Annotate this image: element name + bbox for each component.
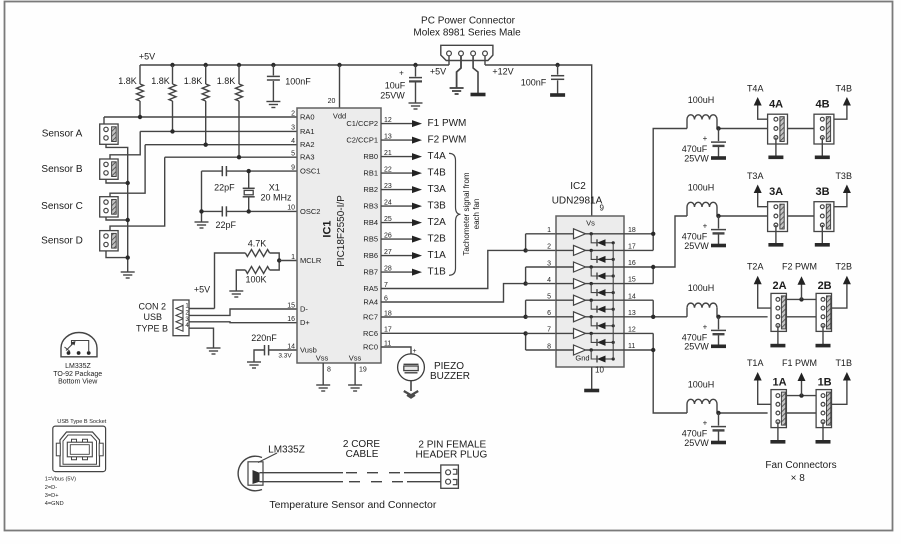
label 2B	[818, 280, 832, 292]
connector 4A fan header	[768, 114, 788, 144]
svg-text:2=D-: 2=D-	[45, 485, 57, 491]
svg-text:Temperature Sensor and Connect: Temperature Sensor and Connector	[269, 499, 436, 511]
ground sensors	[121, 272, 135, 278]
resistor R2 1.8K	[169, 65, 176, 131]
connector 2-pin female header plug	[441, 465, 459, 488]
svg-text:LM335Z: LM335Z	[268, 445, 305, 456]
wire 4B ground leg	[821, 138, 823, 157]
svg-text:9: 9	[600, 204, 605, 213]
label +5V rail	[139, 51, 155, 61]
wire R5 to USB +5V	[215, 253, 246, 309]
driver channel 7 with diode	[556, 328, 624, 346]
svg-text:RC6: RC6	[363, 329, 378, 338]
junctions sensor returns	[126, 181, 130, 260]
resistor R1 1.8K	[137, 65, 144, 117]
ground C6	[247, 362, 261, 368]
svg-text:16: 16	[287, 316, 295, 323]
wire/arrow output F2 PWM	[381, 137, 422, 144]
wire/arrow T1B tach	[832, 372, 851, 404]
svg-text:18: 18	[384, 310, 392, 317]
label R3 value 1.8K	[184, 76, 203, 86]
svg-text:RB0: RB0	[363, 152, 378, 161]
svg-text:27: 27	[384, 249, 392, 256]
label C2f value	[682, 332, 710, 351]
IC1 left pin labels	[287, 110, 322, 354]
svg-text:6: 6	[547, 310, 551, 317]
svg-text:Bottom View: Bottom View	[58, 379, 98, 386]
svg-text:+5V: +5V	[139, 51, 155, 61]
wire/arrow T3B tach	[834, 185, 851, 207]
wire 2A to 2B supply	[786, 316, 816, 318]
wire Vss pin 8	[323, 363, 331, 385]
svg-text:LM335Z: LM335Z	[65, 363, 91, 370]
svg-text:3A: 3A	[769, 186, 783, 198]
svg-text:28: 28	[384, 265, 392, 272]
wire Vss pin 19	[355, 363, 367, 385]
svg-text:USB Type B Socket: USB Type B Socket	[57, 419, 106, 425]
svg-text:MCLR: MCLR	[300, 256, 322, 265]
op-amp U1 microcontroller IC1 PIC18F2550-I/P body	[297, 108, 381, 363]
label Fan Connectors x8	[765, 460, 836, 484]
label L4 100uH	[688, 95, 715, 105]
junctions pullups to RA rows	[138, 115, 241, 160]
wire OSC1 row	[226, 170, 297, 172]
wire J1 pin1 to +5V rail	[448, 56, 450, 65]
svg-text:15: 15	[628, 277, 636, 284]
wire RC6 to IC2 in7/8	[381, 332, 526, 334]
IC1 right pin labels	[346, 117, 392, 352]
label 3A	[769, 186, 783, 198]
wire/arrow F2 PWM	[786, 276, 816, 301]
junctions on +5V rail	[170, 63, 417, 67]
connector Sensor C 2-pin	[100, 197, 118, 217]
wire J1 pin2 to ground	[457, 56, 461, 88]
label F1 PWM	[782, 358, 817, 368]
svg-text:24: 24	[384, 199, 392, 206]
svg-text:RA0: RA0	[300, 112, 315, 121]
svg-text:RB6: RB6	[363, 251, 378, 260]
svg-text:2B: 2B	[818, 280, 832, 292]
svg-text:17: 17	[628, 244, 636, 251]
svg-text:25VW: 25VW	[684, 153, 709, 163]
ground IC2	[584, 389, 599, 393]
svg-text:D-: D-	[300, 304, 308, 313]
svg-text:T1B: T1B	[428, 267, 447, 278]
IC2 input pin stubs	[526, 227, 556, 350]
svg-text:22: 22	[384, 166, 392, 173]
connector CON2 USB Type B 4-pin	[173, 300, 189, 336]
wire sensor A return chain	[106, 144, 128, 272]
svg-text:T3B: T3B	[835, 171, 852, 181]
inductor L1 100uH	[687, 399, 717, 413]
svg-text:RB5: RB5	[363, 235, 378, 244]
svg-text:PIC18F2550-I/P: PIC18F2550-I/P	[336, 195, 347, 267]
connector Sensor A 2-pin	[100, 124, 118, 144]
op-amp U2 driver IC2 UDN2981A body	[556, 216, 624, 367]
svg-text:10: 10	[287, 205, 295, 212]
inductor L3 100uH	[687, 202, 717, 216]
label C1f value	[682, 429, 710, 448]
connector J1 Molex 8981 4-pin	[441, 45, 493, 60]
svg-text:18: 18	[628, 227, 636, 234]
connector 2A fan header	[771, 293, 786, 331]
svg-text:4: 4	[291, 138, 295, 145]
svg-text:10uF: 10uF	[385, 80, 406, 90]
IC2 output pin stubs	[624, 227, 653, 350]
ground CON2	[207, 348, 221, 354]
label T4A	[747, 83, 764, 93]
ground C1	[266, 102, 280, 108]
wire outputs 18+17 to T4 filter	[651, 129, 687, 251]
connector Sensor B 2-pin	[100, 159, 118, 179]
capacitor C4f 470uF	[703, 129, 726, 158]
wire J1 pin4 to +12V rail	[484, 56, 486, 65]
svg-text:20: 20	[328, 98, 336, 105]
label T1B	[428, 267, 447, 278]
wire outputs 14+13 to T2 filter	[651, 300, 687, 319]
label USB pinout list	[45, 476, 76, 507]
svg-text:3: 3	[547, 260, 551, 267]
svg-text:RA2: RA2	[300, 140, 315, 149]
wire 1A ground leg	[777, 422, 779, 441]
svg-text:T4B: T4B	[835, 83, 852, 93]
svg-text:13: 13	[384, 133, 392, 140]
svg-text:IC2: IC2	[570, 181, 586, 192]
wire Vdd pin 20	[339, 65, 341, 108]
ground 1B	[816, 440, 831, 444]
wire outputs 12+11 to T1 filter	[651, 333, 687, 413]
brace tachometer signals	[449, 153, 461, 275]
wire/arrow output T4A	[381, 153, 422, 160]
wire/arrow T1A tach	[754, 372, 771, 404]
wire +5V rail	[140, 64, 449, 66]
resistor R5 4.7K	[245, 250, 279, 261]
svg-text:12: 12	[628, 327, 636, 334]
diagram USB Type B socket	[53, 426, 106, 472]
label L1 100uH	[688, 379, 715, 389]
capacitor C3 22pF	[202, 166, 227, 176]
wire 2-core cable	[260, 473, 441, 482]
resistor R6 100K	[245, 261, 279, 274]
wire J1 pin3 to ground	[473, 56, 478, 94]
label PC Power Connector title	[413, 16, 521, 39]
label T3A	[428, 184, 447, 195]
wire pair in7-8 / junction	[523, 331, 527, 350]
label R2 value 1.8K	[151, 76, 170, 86]
svg-text:RA4: RA4	[363, 297, 378, 306]
connector 2B fan header	[816, 293, 831, 331]
capacitor C6 220nF	[254, 345, 297, 362]
svg-text:T3A: T3A	[747, 171, 764, 181]
svg-text:1=Vbus (5V): 1=Vbus (5V)	[45, 476, 76, 482]
connector Sensor D 2-pin	[100, 231, 118, 251]
svg-text:Tachometer signal from: Tachometer signal from	[462, 172, 471, 255]
inductor L4 100uH	[687, 115, 717, 129]
wire/arrow output T3A	[381, 186, 422, 193]
label Sensor B	[41, 164, 82, 175]
svg-text:2: 2	[547, 244, 551, 251]
wire/arrow T4A tach	[754, 97, 768, 119]
svg-text:1.8K: 1.8K	[217, 76, 236, 86]
svg-text:9: 9	[291, 164, 295, 171]
svg-text:100nF: 100nF	[521, 77, 547, 87]
svg-text:T4B: T4B	[428, 168, 447, 179]
svg-text:+: +	[703, 419, 708, 428]
svg-text:1.8K: 1.8K	[151, 76, 170, 86]
svg-text:+: +	[703, 222, 708, 231]
svg-text:Fan Connectors: Fan Connectors	[765, 460, 836, 471]
label +12V at J1	[492, 66, 513, 76]
svg-text:T3B: T3B	[428, 201, 447, 212]
wire 3A to 3B supply	[788, 215, 815, 217]
wire/arrow T2B tach	[832, 276, 851, 308]
wire sensor B return	[106, 179, 128, 183]
svg-text:+: +	[399, 69, 404, 78]
pin number 20	[328, 98, 336, 105]
svg-text:+5V: +5V	[430, 66, 446, 76]
label 2A	[772, 280, 786, 292]
connector 1B fan header	[816, 390, 831, 428]
wire/arrow T3A tach	[754, 185, 768, 207]
svg-text:4=GND: 4=GND	[45, 501, 64, 507]
wire/arrow output T2B	[381, 236, 422, 243]
resistor R3 1.8K	[202, 65, 209, 145]
svg-text:4B: 4B	[815, 99, 829, 111]
wire T4 rail / junction	[716, 126, 767, 130]
svg-text:RB2: RB2	[363, 185, 378, 194]
svg-text:T1B: T1B	[835, 358, 852, 368]
wire R6 to ground	[236, 270, 245, 291]
wire IC2 Gnd pin10	[592, 366, 605, 389]
svg-text:Vs: Vs	[586, 218, 595, 227]
capacitor C1f 470uF	[703, 413, 726, 442]
wire/arrow output T2A	[381, 219, 422, 226]
svg-text:each fan: each fan	[472, 199, 481, 230]
svg-text:+: +	[703, 134, 708, 143]
svg-text:8: 8	[327, 366, 331, 373]
label T2A	[428, 217, 447, 228]
label 2 PIN FEMALE HEADER PLUG	[416, 439, 488, 460]
wire OSC2 row	[226, 210, 297, 212]
wire T2 rail / junction	[716, 315, 767, 319]
ground C1f	[711, 441, 726, 445]
driver channel 5 with diode	[556, 295, 624, 313]
svg-text:4.7K: 4.7K	[248, 238, 267, 248]
svg-text:RC0: RC0	[363, 342, 378, 351]
wire CON2 pin4 GND	[189, 328, 214, 348]
svg-text:RA1: RA1	[300, 127, 315, 136]
piezo buzzer BZ1	[398, 354, 425, 381]
wire outputs 16+15 to T3 filter	[651, 216, 687, 284]
ground C3f	[711, 244, 726, 248]
ground C4f	[711, 156, 726, 160]
svg-text:OSC1: OSC1	[300, 167, 320, 176]
wire RC7 to IC2 in5/6	[381, 316, 526, 318]
capacitor C5 100nF	[551, 65, 564, 94]
svg-text:14: 14	[628, 293, 636, 300]
svg-text:Gnd: Gnd	[575, 353, 589, 362]
label F2 PWM	[782, 262, 817, 272]
wire/arrow output T3B	[381, 203, 422, 210]
svg-text:6: 6	[384, 295, 388, 302]
label tachometer note	[462, 172, 481, 255]
svg-text:2A: 2A	[772, 280, 786, 292]
wire 3A ground leg	[775, 225, 777, 244]
ground C2f	[711, 344, 726, 348]
svg-text:RB3: RB3	[363, 202, 378, 211]
driver channel 8 with diode	[556, 345, 624, 363]
svg-text:1: 1	[291, 254, 295, 261]
diagram LM335Z TO-92 bottom view	[61, 333, 97, 357]
label T2A	[747, 262, 764, 272]
inductor L2 100uH	[687, 303, 717, 317]
svg-text:1A: 1A	[772, 376, 786, 388]
svg-text:100uH: 100uH	[688, 283, 715, 293]
svg-text:CON 2: CON 2	[139, 301, 167, 311]
label L3 100uH	[688, 182, 715, 192]
label Sensor D	[41, 236, 83, 247]
label X1 20 MHz	[260, 183, 292, 203]
svg-text:Vss: Vss	[316, 353, 329, 362]
svg-text:100uH: 100uH	[688, 182, 715, 192]
wire/arrow F1 PWM	[786, 373, 816, 398]
svg-text:T2B: T2B	[835, 262, 852, 272]
ground C2	[409, 103, 423, 109]
connector 3A fan header	[768, 202, 788, 232]
label F1 PWM	[428, 118, 467, 129]
label Temperature Sensor and Connector	[269, 499, 436, 511]
svg-text:22pF: 22pF	[214, 183, 235, 193]
label T3B	[835, 171, 852, 181]
wire 1A to 1B supply	[786, 412, 816, 414]
svg-text:13: 13	[628, 310, 636, 317]
wire/arrow output T4B	[381, 170, 422, 177]
svg-text:1.8K: 1.8K	[118, 76, 137, 86]
label T4B	[835, 83, 852, 93]
wire 4A ground leg	[775, 138, 777, 157]
svg-text:TO-92 Package: TO-92 Package	[53, 371, 102, 378]
ground 4A	[768, 156, 783, 160]
wire T3 rail / junction	[716, 214, 767, 218]
ground 1A	[770, 440, 785, 444]
wire pair in3-4 / junction	[523, 267, 527, 286]
svg-text:3B: 3B	[815, 186, 829, 198]
ground 4B	[815, 156, 830, 160]
label C2 value	[380, 80, 406, 100]
wire/arrow output T1B	[381, 269, 422, 276]
transistor Q1 LM335Z sensor body	[238, 456, 263, 491]
svg-text:F1 PWM: F1 PWM	[782, 358, 817, 368]
svg-text:Sensor D: Sensor D	[41, 236, 83, 247]
label T4A	[428, 151, 447, 162]
svg-text:19: 19	[359, 366, 367, 373]
label LM335Z sensor	[268, 445, 305, 456]
svg-text:T1A: T1A	[428, 250, 447, 261]
resistor R4 1.8K	[236, 65, 243, 157]
label USB Type B Socket	[57, 419, 106, 425]
wire RA1 row / node RA1	[110, 131, 297, 159]
connector 1A fan header	[771, 390, 786, 428]
wire sensor C return	[106, 217, 128, 220]
pin number 9	[600, 204, 605, 213]
wire IC2 diode common rail	[612, 243, 614, 359]
svg-text:100uH: 100uH	[688, 379, 715, 389]
driver channel 3 with diode	[556, 262, 624, 280]
svg-text:20 MHz: 20 MHz	[260, 192, 292, 202]
driver channel 2 with diode	[556, 245, 624, 263]
label Sensor A	[42, 129, 83, 140]
svg-text:10: 10	[595, 366, 604, 375]
svg-text:3=D+: 3=D+	[45, 493, 59, 499]
wire MCLR to IC1	[279, 260, 297, 262]
svg-text:T1A: T1A	[747, 358, 764, 368]
label T1A	[428, 250, 447, 261]
svg-text:14: 14	[287, 343, 295, 350]
connector 3B fan header	[814, 202, 834, 232]
svg-text:USB: USB	[144, 312, 163, 322]
svg-text:T2A: T2A	[428, 217, 447, 228]
label C6 220nF	[251, 333, 277, 343]
capacitor C2f 470uF	[703, 317, 726, 346]
wire RA5 to IC2 in1/2	[381, 250, 526, 288]
wire CON2 pin2 D-	[189, 309, 297, 315]
svg-text:25VW: 25VW	[380, 90, 405, 100]
svg-text:1B: 1B	[818, 376, 832, 388]
svg-text:X1: X1	[269, 183, 280, 193]
label IC2 UDN2981A	[552, 181, 603, 207]
svg-text:7: 7	[547, 327, 551, 334]
label 1B	[818, 376, 832, 388]
label C3 22pF	[214, 183, 235, 193]
ground 2A	[770, 344, 785, 348]
svg-text:25VW: 25VW	[684, 438, 709, 448]
label R1 value 1.8K	[118, 76, 137, 86]
label +5V at J1	[430, 66, 446, 76]
svg-text:2: 2	[291, 110, 295, 117]
ground J1 pin2	[450, 88, 464, 94]
svg-text:RA3: RA3	[300, 153, 315, 162]
svg-text:TYPE B: TYPE B	[136, 323, 168, 333]
svg-text:3.3V: 3.3V	[278, 353, 292, 360]
label TO-92 bottom view	[53, 363, 102, 386]
svg-text:17: 17	[384, 327, 392, 334]
wire/arrow output F1 PWM	[381, 120, 422, 127]
label L2 100uH	[688, 283, 715, 293]
svg-text:23: 23	[384, 183, 392, 190]
wire 4A to 4B supply	[788, 128, 815, 130]
ground Vss19	[348, 385, 362, 391]
svg-text:100nF: 100nF	[285, 76, 311, 86]
svg-text:PC Power Connector: PC Power Connector	[421, 16, 516, 27]
svg-text:Sensor B: Sensor B	[41, 164, 82, 175]
label C4f value	[682, 144, 710, 163]
label CON 2 USB TYPE B	[136, 301, 168, 333]
wire/arrow output T1A	[381, 252, 422, 259]
label C5 100nF	[521, 77, 547, 87]
svg-text:7: 7	[384, 282, 388, 289]
svg-text:Vdd: Vdd	[333, 111, 346, 120]
svg-text:T2A: T2A	[747, 262, 764, 272]
wire RA0 row / node RA0	[104, 117, 297, 124]
label C3f value	[682, 232, 710, 251]
svg-text:RA5: RA5	[363, 284, 378, 293]
svg-text:21: 21	[384, 150, 392, 157]
label F2 PWM	[428, 135, 467, 146]
label T2B	[835, 262, 852, 272]
ground R6	[229, 291, 243, 297]
wire/arrow T4B tach	[834, 97, 851, 119]
svg-text:× 8: × 8	[791, 473, 806, 484]
